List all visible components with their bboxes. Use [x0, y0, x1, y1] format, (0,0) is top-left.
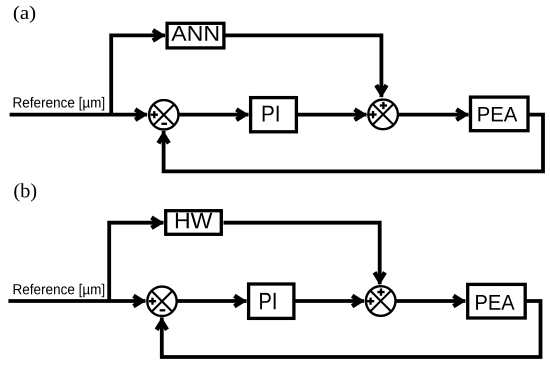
wire: branch up to HW (b)	[109, 223, 163, 301]
summing junction S2a circle	[368, 100, 398, 130]
arrowhead up into S1a bottom	[156, 131, 170, 145]
label (b)	[14, 183, 36, 201]
sign + left of S2b	[367, 298, 374, 305]
sign + left of S1a	[151, 111, 158, 118]
arrowhead into PI (a)	[235, 107, 249, 121]
block PEA (a)	[471, 97, 529, 131]
sign + left of S1b	[149, 298, 156, 305]
summing junction S1a cross	[153, 104, 174, 125]
summing junction S2b cross	[370, 291, 391, 312]
wire: HW output to junction S2b	[224, 223, 380, 285]
arrowhead into S2a left	[353, 107, 367, 121]
arrowhead up into S1b bottom	[155, 317, 169, 331]
label (a)	[14, 6, 35, 23]
node label Reference [µm] (b)	[14, 284, 105, 298]
arrowhead into HW	[150, 216, 164, 230]
arrowhead into ANN	[152, 28, 166, 42]
wire: ANN output to junction S2a	[226, 35, 382, 97]
node label Reference [µm] (a)	[14, 97, 105, 111]
arrowhead into PI (b)	[233, 294, 247, 308]
arrowhead into summing junction S1a	[134, 107, 148, 121]
sign + left of S2a	[369, 111, 376, 118]
arrowhead into summing junction S1b	[132, 294, 146, 308]
summing junction S1b cross	[152, 291, 173, 312]
sign - bottom of S1a	[161, 123, 167, 125]
block PI (a)	[251, 98, 297, 132]
arrowhead down into S2b	[373, 271, 387, 285]
block PEA (b)	[468, 284, 526, 318]
wire: PI to S2a	[298, 113, 367, 117]
summing junction S2a cross	[373, 104, 394, 125]
block PI (b)	[249, 284, 294, 318]
arrowhead into S2b left	[351, 294, 365, 308]
wire: S2a to PEA (a)	[398, 113, 469, 117]
arrowhead down into S2a	[374, 84, 388, 98]
wire: S2b to PEA (b)	[396, 299, 466, 303]
wire: PI to S2b	[294, 299, 364, 303]
summing junction S2b circle	[366, 286, 396, 316]
block ANN	[167, 23, 224, 48]
wire: PEA feedback (a) right-down-left-up	[164, 115, 543, 172]
arrowhead into PEA (a)	[455, 107, 469, 121]
wire: input line (a)	[10, 113, 147, 117]
sign + top of S2a	[380, 102, 387, 109]
block HW	[166, 211, 222, 235]
wire: S1a to PI (a)	[179, 113, 249, 117]
arrowhead into PEA (b)	[452, 294, 466, 308]
wire: S1b to PI (b)	[177, 299, 247, 303]
sign + top of S2b	[377, 289, 384, 296]
wire: PEA feedback (b) right-down-left-up	[162, 301, 541, 357]
sign - bottom of S1b	[160, 309, 166, 311]
summing junction S1b circle	[147, 287, 176, 316]
summing junction S1a circle	[149, 100, 178, 129]
wire: branch up to ANN (a)	[111, 35, 165, 114]
wire: input line (b)	[8, 299, 145, 303]
